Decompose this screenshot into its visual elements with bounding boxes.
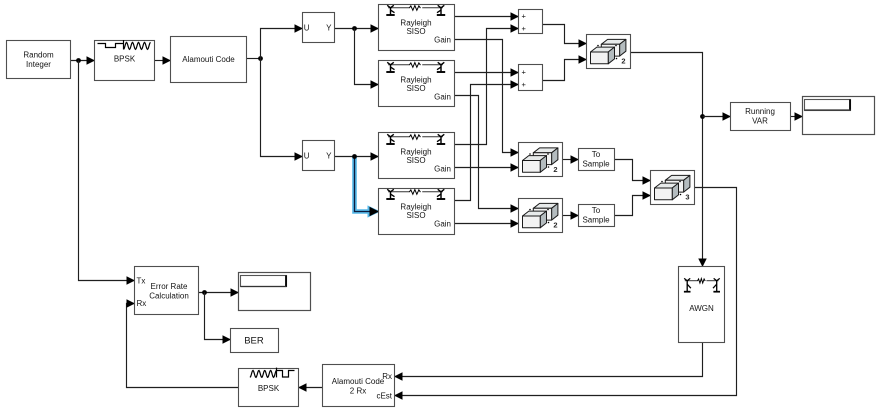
svg-text:BPSK: BPSK bbox=[258, 384, 280, 393]
svg-text:2 Rx: 2 Rx bbox=[350, 386, 366, 395]
svg-text:+: + bbox=[522, 80, 527, 89]
svg-text:To: To bbox=[592, 150, 601, 159]
svg-text:Sample: Sample bbox=[582, 160, 610, 169]
svg-text:Error Rate: Error Rate bbox=[151, 282, 188, 291]
svg-text:SISO: SISO bbox=[406, 156, 425, 165]
svg-text:Integer: Integer bbox=[26, 60, 51, 69]
svg-text:Gain: Gain bbox=[434, 93, 451, 102]
svg-text:U: U bbox=[304, 24, 310, 33]
svg-text:Gain: Gain bbox=[434, 220, 451, 229]
svg-text:Calculation: Calculation bbox=[149, 292, 189, 301]
svg-text:Running: Running bbox=[745, 107, 775, 116]
svg-text:Y: Y bbox=[326, 152, 332, 161]
svg-text:SISO: SISO bbox=[406, 27, 425, 36]
svg-text:BER: BER bbox=[244, 335, 264, 346]
svg-text:+: + bbox=[522, 68, 527, 77]
svg-text:Gain: Gain bbox=[434, 165, 451, 174]
svg-text:Sample: Sample bbox=[582, 216, 610, 225]
svg-text:SISO: SISO bbox=[406, 211, 425, 220]
svg-text:AWGN: AWGN bbox=[689, 304, 714, 313]
svg-text:To: To bbox=[592, 206, 601, 215]
svg-text:Y: Y bbox=[326, 24, 332, 33]
svg-text:Rx: Rx bbox=[137, 299, 147, 308]
svg-text:Alamouti Code: Alamouti Code bbox=[182, 55, 235, 64]
svg-text:+: + bbox=[522, 12, 527, 21]
svg-text:+: + bbox=[522, 24, 527, 33]
svg-text:2: 2 bbox=[553, 221, 557, 230]
svg-text:2: 2 bbox=[621, 57, 625, 66]
svg-text:Rx: Rx bbox=[382, 372, 392, 381]
svg-text:VAR: VAR bbox=[752, 117, 768, 126]
svg-text:Gain: Gain bbox=[434, 36, 451, 45]
svg-text:Tx: Tx bbox=[137, 277, 146, 286]
svg-text:Random: Random bbox=[23, 51, 54, 60]
svg-text:2: 2 bbox=[553, 165, 557, 174]
svg-text:cEst: cEst bbox=[376, 391, 392, 400]
svg-text:Alamouti Code: Alamouti Code bbox=[332, 377, 385, 386]
svg-text:3: 3 bbox=[685, 193, 689, 202]
svg-text:SISO: SISO bbox=[406, 84, 425, 93]
svg-text:BPSK: BPSK bbox=[114, 55, 136, 64]
svg-text:U: U bbox=[304, 152, 310, 161]
